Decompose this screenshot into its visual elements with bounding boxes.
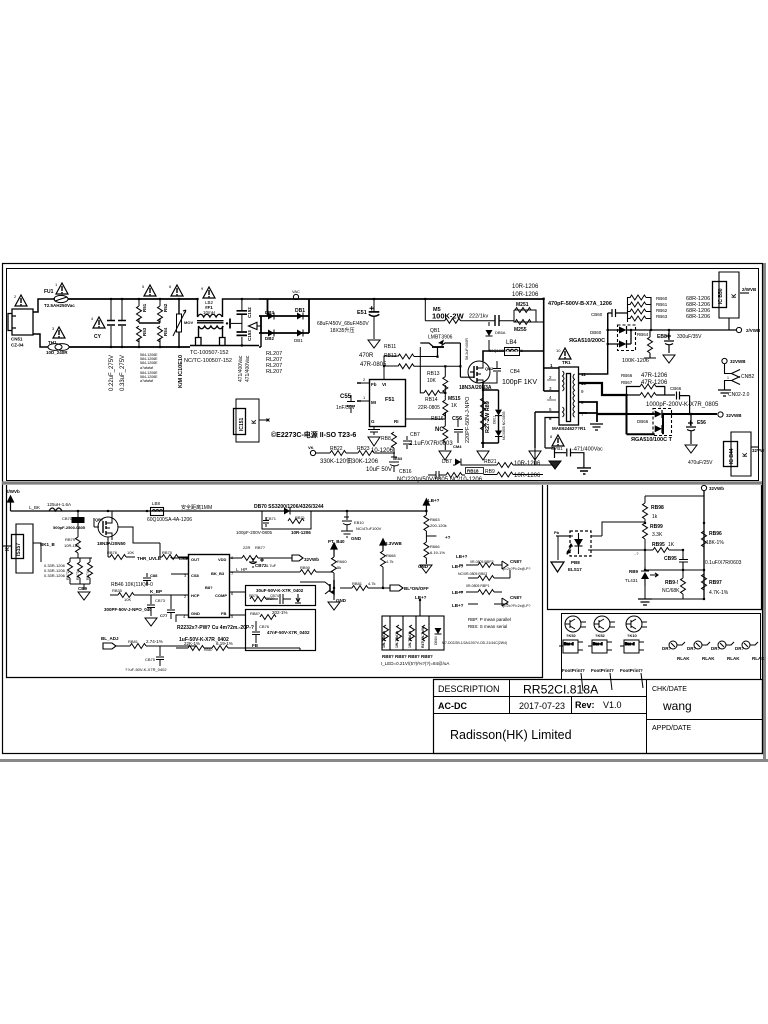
cap CB70 bbox=[72, 511, 84, 523]
svg-text:1W-75k/1k: 1W-75k/1k bbox=[382, 631, 386, 648]
ground CYB1 left bbox=[549, 461, 561, 469]
diode DB2 bbox=[268, 330, 274, 337]
svg-text:+?: +? bbox=[445, 535, 451, 540]
transistor QB8 bbox=[300, 580, 334, 600]
diode DB66 upper bbox=[655, 410, 662, 418]
svg-text:APPD/DATE: APPD/DATE bbox=[652, 725, 691, 732]
svg-text:220PF-50N-J-NPO: 220PF-50N-J-NPO bbox=[465, 396, 471, 443]
svg-text:CB16: CB16 bbox=[399, 469, 412, 475]
svg-text:OUT: OUT bbox=[191, 557, 200, 562]
footprint leader line 3 bbox=[641, 673, 643, 688]
svg-text:B8?: B8? bbox=[205, 585, 213, 590]
title block outer box bbox=[434, 680, 763, 754]
resistor RB79b bbox=[250, 597, 266, 602]
svg-text:R666: R666 bbox=[430, 544, 440, 549]
resistor RB83 bbox=[188, 646, 204, 651]
svg-text:M251: M251 bbox=[516, 302, 529, 308]
svg-text:RB90: RB90 bbox=[300, 565, 311, 570]
warning triangle 4 bbox=[93, 317, 105, 328]
svg-text:10R-1206: 10R-1206 bbox=[512, 292, 539, 298]
wires fan rows bbox=[459, 565, 510, 604]
svg-text:2/WVb: 2/WVb bbox=[6, 489, 20, 494]
svg-text:2/WVB: 2/WVB bbox=[742, 287, 757, 292]
svg-text:RLAK: RLAK bbox=[677, 656, 690, 661]
svg-text:E83: E83 bbox=[395, 456, 403, 461]
cap C56 bbox=[454, 419, 463, 443]
resistor RB76 bbox=[110, 555, 126, 560]
warning triangle 2 bbox=[15, 295, 27, 306]
cap CB4 bbox=[493, 362, 501, 380]
label RL207 x4 bbox=[266, 351, 282, 375]
svg-text:DR?: DR? bbox=[735, 646, 744, 651]
svg-text:GND: GND bbox=[351, 536, 362, 541]
svg-text:500pF-2500-0805: 500pF-2500-0805 bbox=[53, 525, 86, 530]
ground E56 bbox=[685, 445, 697, 453]
arrow LB+ bbox=[423, 499, 429, 511]
svg-text:RB74: RB74 bbox=[86, 571, 90, 580]
resistor RB82 bbox=[260, 615, 276, 620]
svg-text:471/400Vac: 471/400Vac bbox=[238, 355, 244, 382]
svg-text:L_HP: L_HP bbox=[236, 567, 247, 572]
warning triangle 1 bbox=[56, 283, 68, 294]
svg-text:R47UW-7k/W: R47UW-7k/W bbox=[421, 626, 425, 648]
svg-text:CB75: CB75 bbox=[145, 657, 156, 662]
cap EB8 bbox=[664, 330, 674, 353]
svg-text:QB7: QB7 bbox=[95, 517, 104, 522]
node 32VWb fb bbox=[701, 485, 706, 490]
svg-text:©E2273C-电源 II-SO T23-6: ©E2273C-电源 II-SO T23-6 bbox=[271, 430, 356, 439]
svg-text:RB8: RB8 bbox=[381, 436, 391, 442]
diode DB1b bbox=[297, 330, 303, 337]
wire snubber down bbox=[488, 322, 490, 351]
connector arrow CN85 bbox=[502, 561, 508, 569]
svg-text:Fb: Fb bbox=[371, 382, 377, 387]
svg-text:4.7k: 4.7k bbox=[386, 559, 394, 564]
svg-text:C55: C55 bbox=[340, 394, 352, 400]
svg-text:MAE62462??R1: MAE62462??R1 bbox=[552, 426, 586, 431]
top section inner border bbox=[7, 269, 759, 481]
opto LED bbox=[556, 533, 602, 555]
label 584-1206 block bbox=[140, 353, 158, 383]
resistor RB66 bbox=[640, 384, 656, 389]
svg-text:CB66: CB66 bbox=[670, 386, 682, 391]
cap CB75 bbox=[156, 646, 164, 666]
footprint transistor 2 circle bbox=[594, 616, 615, 632]
svg-text:CYB1: CYB1 bbox=[551, 446, 563, 451]
resistor RB73 bbox=[78, 562, 83, 578]
svg-text:R52: R52 bbox=[163, 303, 168, 312]
resistor RB63 bbox=[630, 316, 646, 321]
svg-text:RB9: RB9 bbox=[485, 469, 495, 475]
IC157 box bbox=[2, 524, 33, 573]
resistor RB97 bbox=[702, 574, 707, 590]
svg-text:RB11: RB11 bbox=[384, 344, 396, 350]
cap CB95 bbox=[679, 557, 688, 570]
svg-text:LB4: LB4 bbox=[506, 340, 517, 346]
svg-text:COMP: COMP bbox=[215, 593, 227, 598]
wire opto to rb99 junction bbox=[588, 522, 645, 550]
svg-text:?K10: ?K10 bbox=[627, 633, 638, 638]
svg-text:RB97: RB97 bbox=[709, 580, 722, 586]
node main out bbox=[718, 412, 723, 417]
svg-text:R53: R53 bbox=[142, 327, 147, 336]
bridge rectifier outline bbox=[259, 316, 309, 333]
mosfet circle bbox=[468, 361, 490, 383]
svg-text:30uF-50V-K-X7R_0402: 30uF-50V-K-X7R_0402 bbox=[256, 588, 304, 593]
svg-text:RB76: RB76 bbox=[107, 550, 118, 555]
inductor LB4 body bbox=[505, 348, 520, 356]
box comp network bbox=[246, 586, 316, 606]
transistor QB1 bbox=[420, 340, 474, 378]
footprint diode 3 bbox=[718, 641, 734, 649]
svg-text:CM4: CM4 bbox=[453, 444, 462, 449]
ground CB73 bbox=[145, 618, 157, 626]
gnd right bbox=[529, 451, 541, 460]
wire pin8/pin7 return bbox=[579, 402, 598, 422]
wire dual diodes bbox=[481, 390, 499, 443]
resistor RB22 bbox=[330, 451, 346, 456]
svg-text:CB7: CB7 bbox=[410, 432, 420, 438]
svg-text:..?: ..? bbox=[634, 551, 639, 556]
svg-text:I_LED=0.21V/(5?)/%?(?)=84@/uA: I_LED=0.21V/(5?)/%?(?)=84@/uA bbox=[381, 661, 449, 666]
svg-text:0R-0805 RBP2: 0R-0805 RBP2 bbox=[470, 560, 494, 564]
svg-text:FU1: FU1 bbox=[44, 289, 54, 295]
resistor RB35 bbox=[118, 593, 134, 598]
diode DB60 lower bbox=[619, 340, 627, 348]
svg-text:CN02-2.0: CN02-2.0 bbox=[728, 392, 750, 398]
IC151 box bbox=[234, 399, 270, 442]
svg-text:PT_B40: PT_B40 bbox=[328, 539, 345, 544]
svg-text:DR?: DR? bbox=[711, 646, 720, 651]
svg-text:10R-120: 10R-120 bbox=[64, 543, 80, 548]
svg-text:M255: M255 bbox=[514, 327, 527, 333]
warning triangle 3 bbox=[53, 327, 65, 338]
resistor RB68 bbox=[381, 551, 386, 567]
svg-text:C153: C153 bbox=[247, 330, 252, 341]
bridge input arrow bbox=[249, 322, 262, 329]
choke LB3 upper winding bbox=[198, 314, 223, 317]
bottom wires RB21 bbox=[443, 448, 553, 475]
node CNB2 top bbox=[722, 358, 727, 363]
resistor RB94 bbox=[681, 578, 686, 594]
resistor M251 bbox=[515, 308, 531, 313]
wire rb95 bbox=[645, 550, 683, 557]
source sense resistor R27-2W vertical bbox=[481, 398, 486, 414]
choke LB3 left notch square bbox=[196, 338, 202, 346]
svg-text:Radisson(HK) Limited: Radisson(HK) Limited bbox=[450, 728, 572, 742]
svg-text:1: 1 bbox=[727, 376, 729, 380]
aux rectifier wires bbox=[608, 313, 736, 344]
svg-text:58.2uF/400R: 58.2uF/400R bbox=[465, 338, 469, 360]
svg-text:RBS: S mean serial: RBS: S mean serial bbox=[468, 624, 507, 629]
svg-text:RB63: RB63 bbox=[656, 314, 668, 319]
svg-text:DB70 SS3200/1206/4326/3244: DB70 SS3200/1206/4326/3244 bbox=[254, 504, 324, 510]
svg-text:RB13: RB13 bbox=[427, 371, 440, 377]
resistor RB60 bbox=[630, 295, 646, 300]
svg-text:0.33R-1206: 0.33R-1206 bbox=[44, 573, 66, 578]
svg-text:NC/0805 NC/0805: NC/0805 NC/0805 bbox=[502, 411, 506, 440]
label RB18 bbox=[466, 468, 484, 474]
footprint pad box 1 bbox=[559, 640, 583, 653]
cap E83 bbox=[389, 448, 399, 472]
dashed box DB60 bbox=[618, 325, 636, 351]
wire pin7 lower out bbox=[597, 413, 627, 415]
resistor RB74 bbox=[88, 562, 93, 578]
ground EB10 bbox=[341, 531, 353, 537]
svg-text:10R-1206: 10R-1206 bbox=[514, 461, 541, 467]
wire fuse to caps bbox=[68, 298, 197, 300]
IC left pin wires bbox=[357, 372, 384, 401]
title block row line1 bbox=[434, 696, 647, 698]
svg-text:1W-75k/1k: 1W-75k/1k bbox=[408, 631, 412, 648]
svg-text:ЯGA510/100C T: ЯGA510/100C T bbox=[631, 437, 673, 443]
svg-text:0.33uF_275V: 0.33uF_275V bbox=[120, 355, 126, 391]
cap CB8x bbox=[143, 573, 151, 585]
svg-text:BK_B3: BK_B3 bbox=[211, 571, 225, 576]
choke LB3 exits bbox=[190, 299, 259, 346]
aux snubber resistor bank box bbox=[628, 297, 652, 330]
inductor LB7 bbox=[49, 508, 62, 511]
svg-text:CB73: CB73 bbox=[155, 598, 166, 603]
wires shunt resistors bbox=[70, 558, 90, 590]
svg-text:330K-120佃30K-1206: 330K-120佃30K-1206 bbox=[320, 457, 379, 465]
resistor RB03 bbox=[478, 576, 494, 581]
resistor RB71 bbox=[288, 519, 304, 524]
resistor RB81b bbox=[130, 644, 146, 649]
svg-text:Bae d: Bae d bbox=[593, 642, 603, 646]
wires RB11/RB12 bbox=[384, 356, 460, 376]
mosfet source wire down bbox=[482, 383, 484, 448]
svg-text:NC: NC bbox=[435, 427, 444, 433]
Y-cap C152 plates bbox=[237, 311, 248, 314]
outer frame shadow right bbox=[763, 263, 766, 761]
thermistor TH1 bbox=[48, 344, 62, 351]
svg-text:470pF-500V-B-X7A_1206: 470pF-500V-B-X7A_1206 bbox=[548, 301, 612, 307]
svg-text:10K: 10K bbox=[427, 378, 437, 384]
svg-text:10: 10 bbox=[556, 348, 561, 353]
footprint pad box 3 bbox=[620, 640, 644, 653]
svg-text:0.1uF/X7R/0603: 0.1uF/X7R/0603 bbox=[705, 560, 742, 566]
capacitor CX51 plates bbox=[107, 321, 115, 326]
footprint diode 2 bbox=[694, 641, 710, 649]
wire BK1 bbox=[33, 543, 41, 562]
svg-text:BL_ADJ: BL_ADJ bbox=[101, 636, 119, 641]
svg-text:10R-1206: 10R-1206 bbox=[514, 473, 541, 479]
wire pin4 nc bbox=[547, 399, 556, 401]
svg-text:RI: RI bbox=[394, 419, 399, 424]
warning triangle 9 bbox=[203, 287, 215, 298]
IC B50 box bbox=[713, 272, 750, 330]
diode DB5A bbox=[486, 330, 493, 336]
optocoupler dashed box bbox=[570, 531, 591, 556]
svg-text:DB60: DB60 bbox=[590, 330, 602, 335]
arrow 3.3VWB bbox=[380, 539, 386, 551]
resistor NC vertical bbox=[443, 426, 448, 442]
fb rail wire bbox=[703, 491, 705, 599]
svg-text:CNB2: CNB2 bbox=[741, 374, 755, 380]
wire rb94 bbox=[682, 570, 684, 599]
svg-text:Bae d: Bae d bbox=[625, 642, 635, 646]
varistor arrow bbox=[173, 310, 186, 336]
svg-text:NC/TC-100507-152: NC/TC-100507-152 bbox=[184, 358, 232, 364]
node VAC bbox=[293, 294, 298, 299]
ground lb divider bbox=[420, 565, 432, 573]
footprint diode 4 bbox=[742, 641, 758, 649]
svg-text:CB4: CB4 bbox=[510, 369, 520, 375]
LED ballast block bbox=[382, 616, 444, 650]
svg-text:NC/0R-0805 RB03: NC/0R-0805 RB03 bbox=[458, 572, 487, 576]
resistor R51 zigzag bbox=[137, 306, 142, 322]
resistor RB67 bbox=[640, 393, 656, 398]
svg-text:32VWB: 32VWB bbox=[730, 359, 746, 364]
wire fb bottom bbox=[176, 648, 300, 650]
wire pin6 bbox=[545, 418, 559, 449]
resistor RB99 bbox=[643, 523, 648, 539]
wires RB22/RB23 bbox=[316, 452, 395, 454]
svg-text:HCP: HCP bbox=[191, 593, 200, 598]
svg-text:300PF-50V-J-NPO_040: 300PF-50V-J-NPO_040 bbox=[104, 607, 152, 612]
wire opto left gnd bbox=[557, 536, 559, 560]
resistor R51 column1 top bbox=[138, 299, 140, 306]
svg-text:DB84: DB84 bbox=[434, 636, 438, 645]
footprint transistor 3 circle bbox=[626, 616, 647, 632]
diode DB84 bbox=[435, 628, 442, 634]
svg-text:DB1: DB1 bbox=[295, 308, 305, 314]
svg-text:4.7K-1%: 4.7K-1% bbox=[709, 590, 729, 596]
cap CB74 bbox=[266, 594, 291, 604]
svg-text:FootPrint?: FootPrint? bbox=[591, 668, 614, 673]
gnd under mosfet bbox=[477, 451, 489, 460]
svg-text:RB18: RB18 bbox=[467, 469, 479, 474]
svg-text:V1.0: V1.0 bbox=[603, 700, 622, 710]
svg-text:E56: E56 bbox=[697, 420, 706, 426]
svg-text:RB67: RB67 bbox=[621, 380, 633, 385]
node VK bbox=[310, 450, 315, 455]
svg-text:C56: C56 bbox=[452, 416, 462, 422]
svg-text:RB60: RB60 bbox=[656, 296, 668, 301]
svg-text:E51: E51 bbox=[357, 310, 367, 316]
svg-text:DR?: DR? bbox=[662, 646, 671, 651]
svg-text:125uH-1.6A: 125uH-1.6A bbox=[47, 502, 71, 507]
svg-text:202-1%: 202-1% bbox=[272, 610, 288, 615]
svg-text:FB: FB bbox=[252, 643, 259, 648]
snubber resistor M5 bbox=[425, 299, 460, 324]
svg-text:RB22: RB22 bbox=[330, 446, 343, 452]
choke LB3 core lines bbox=[197, 321, 224, 323]
svg-text:68R-1206: 68R-1206 bbox=[686, 314, 710, 320]
svg-text:18N3A/20N50: 18N3A/20N50 bbox=[97, 541, 126, 546]
ground E51 bbox=[368, 340, 380, 348]
arrow PT_B40 bbox=[331, 543, 337, 557]
svg-text:RLAK: RLAK bbox=[752, 656, 765, 661]
svg-text:RB35: RB35 bbox=[112, 588, 123, 593]
cap C55 bbox=[347, 395, 355, 413]
svg-text:32VWB: 32VWB bbox=[726, 413, 742, 418]
svg-text:10K: 10K bbox=[124, 597, 131, 602]
svg-text:10-1206: 10-1206 bbox=[371, 448, 394, 454]
svg-text:RB66: RB66 bbox=[621, 373, 633, 378]
diode DB1a bbox=[297, 313, 303, 320]
svg-text:G: G bbox=[371, 419, 375, 424]
ground EB8 bbox=[663, 355, 675, 363]
wire gate loop QB71 bbox=[118, 527, 160, 557]
svg-text:-471/400Vac: -471/400Vac bbox=[572, 447, 603, 453]
svg-text:K_BP: K_BP bbox=[150, 589, 162, 594]
cap CB77 right bbox=[167, 595, 175, 619]
resistor RB75 bbox=[162, 555, 178, 560]
wire from CN51 to TH1 bbox=[33, 334, 48, 347]
resistor RB23 bbox=[358, 451, 374, 456]
connector CNB2 bbox=[725, 364, 741, 390]
svg-text:6.19-1%: 6.19-1% bbox=[430, 550, 445, 555]
svg-text:222/1kv: 222/1kv bbox=[469, 314, 489, 320]
svg-text:CZ-04: CZ-04 bbox=[11, 343, 24, 348]
feedback section border bbox=[548, 485, 762, 610]
svg-text:Pb: Pb bbox=[554, 530, 560, 535]
choke LB3 right notch square bbox=[220, 338, 226, 346]
arrow input net bbox=[8, 496, 14, 511]
IC gnd cap bbox=[368, 427, 380, 435]
svg-text:M7-D02/2B.1/2A/100?V-OD-21/44C: M7-D02/2B.1/2A/100?V-OD-21/44C(2W4) bbox=[442, 641, 507, 645]
svg-text:VK: VK bbox=[308, 445, 314, 450]
mosfet drain wire bbox=[483, 348, 543, 449]
svg-text:RB61: RB61 bbox=[656, 302, 668, 307]
inductor LB8 bbox=[151, 508, 164, 516]
diode DB66 lower bbox=[655, 425, 662, 433]
svg-text:18K-1%: 18K-1% bbox=[706, 540, 724, 546]
diode DB3 bbox=[268, 313, 274, 320]
svg-text:TR1: TR1 bbox=[562, 360, 571, 365]
svg-text:0R-0805 RBP1: 0R-0805 RBP1 bbox=[466, 584, 490, 588]
svg-text:CN51: CN51 bbox=[11, 337, 23, 342]
bottom-left section border bbox=[7, 485, 543, 678]
svg-text:60Q100M-4A-1206: 60Q100M-4A-1206 bbox=[489, 348, 524, 353]
snubber RB66/RB67 loop bbox=[627, 387, 676, 396]
svg-text:MOV: MOV bbox=[184, 320, 193, 325]
svg-text:RB8? RB8? RB8? RB8?: RB8? RB8? RB8? RB8? bbox=[382, 654, 433, 659]
resistor RB64 vertical bbox=[648, 337, 653, 353]
svg-text:RB73: RB73 bbox=[76, 571, 80, 580]
svg-text:wang: wang bbox=[662, 699, 692, 713]
cap E56 bbox=[686, 414, 696, 444]
resistor RB84 bbox=[212, 646, 228, 651]
title block rev divider bbox=[571, 697, 573, 714]
diode DB70 bbox=[284, 508, 290, 515]
svg-text:QB2: QB2 bbox=[485, 366, 494, 371]
svg-text:EB8: EB8 bbox=[657, 334, 667, 340]
svg-text:RL207: RL207 bbox=[266, 369, 282, 375]
resistor RB77 bbox=[242, 556, 258, 561]
svg-text:DB3: DB3 bbox=[265, 310, 274, 315]
footprint pad box 2 bbox=[588, 640, 612, 653]
bulk cap E51 plus bbox=[370, 306, 374, 310]
svg-text:RB99: RB99 bbox=[650, 524, 663, 530]
resistor RBP1 bbox=[478, 590, 494, 595]
svg-text:R51: R51 bbox=[142, 303, 147, 312]
connector BL bbox=[390, 585, 403, 591]
svg-text:安全距离1MM: 安全距离1MM bbox=[181, 504, 212, 511]
svg-text:0.22uF_275V: 0.22uF_275V bbox=[109, 355, 115, 391]
svg-text:DB66: DB66 bbox=[637, 419, 649, 424]
svg-text:471/400Vac: 471/400Vac bbox=[245, 355, 251, 382]
svg-text:TL431: TL431 bbox=[625, 578, 638, 583]
svg-text:F51: F51 bbox=[385, 397, 394, 403]
label 68R-1206 x4 bbox=[686, 296, 710, 320]
svg-text:a?afafaf: a?afafaf bbox=[140, 379, 153, 383]
wire top rail to pin1 bbox=[544, 298, 559, 391]
wire rb98 top bbox=[645, 496, 704, 523]
wire rb96 bbox=[703, 523, 705, 570]
